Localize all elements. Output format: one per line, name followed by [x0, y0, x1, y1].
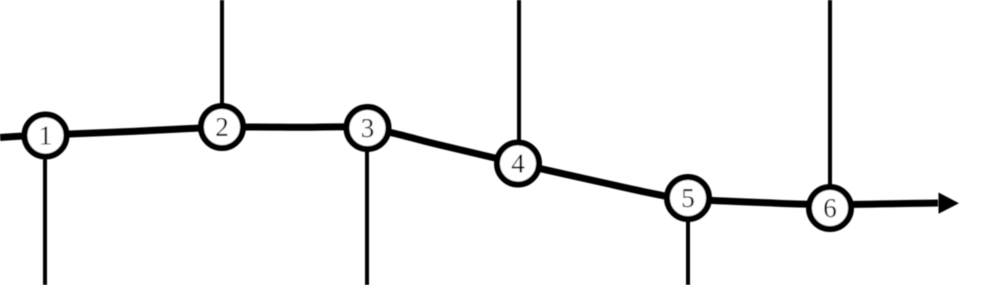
wire: vertical callout line above node 2: [220, 0, 224, 127]
node 3: [347, 107, 389, 149]
node 2: [201, 106, 243, 148]
svg-text:3: 3: [361, 113, 375, 143]
wire: vertical callout line below node 1: [43, 135, 47, 285]
wire: vertical callout line above node 6: [828, 0, 832, 208]
svg-text:6: 6: [823, 193, 837, 223]
svg-text:4: 4: [511, 149, 525, 179]
node 6: [809, 187, 851, 229]
wire: main timeline curve: [0, 127, 938, 205]
svg-text:5: 5: [681, 183, 695, 213]
wire: vertical callout line below node 5: [686, 198, 690, 285]
node 5: [667, 177, 709, 219]
wire: vertical callout line above node 4: [517, 0, 521, 164]
svg-text:2: 2: [215, 112, 229, 142]
arrowhead at end of timeline: [939, 193, 960, 214]
node 1: [25, 115, 67, 157]
svg-text:1: 1: [39, 121, 53, 151]
wire: vertical callout line below node 3: [365, 128, 369, 285]
node 4: [497, 143, 539, 185]
